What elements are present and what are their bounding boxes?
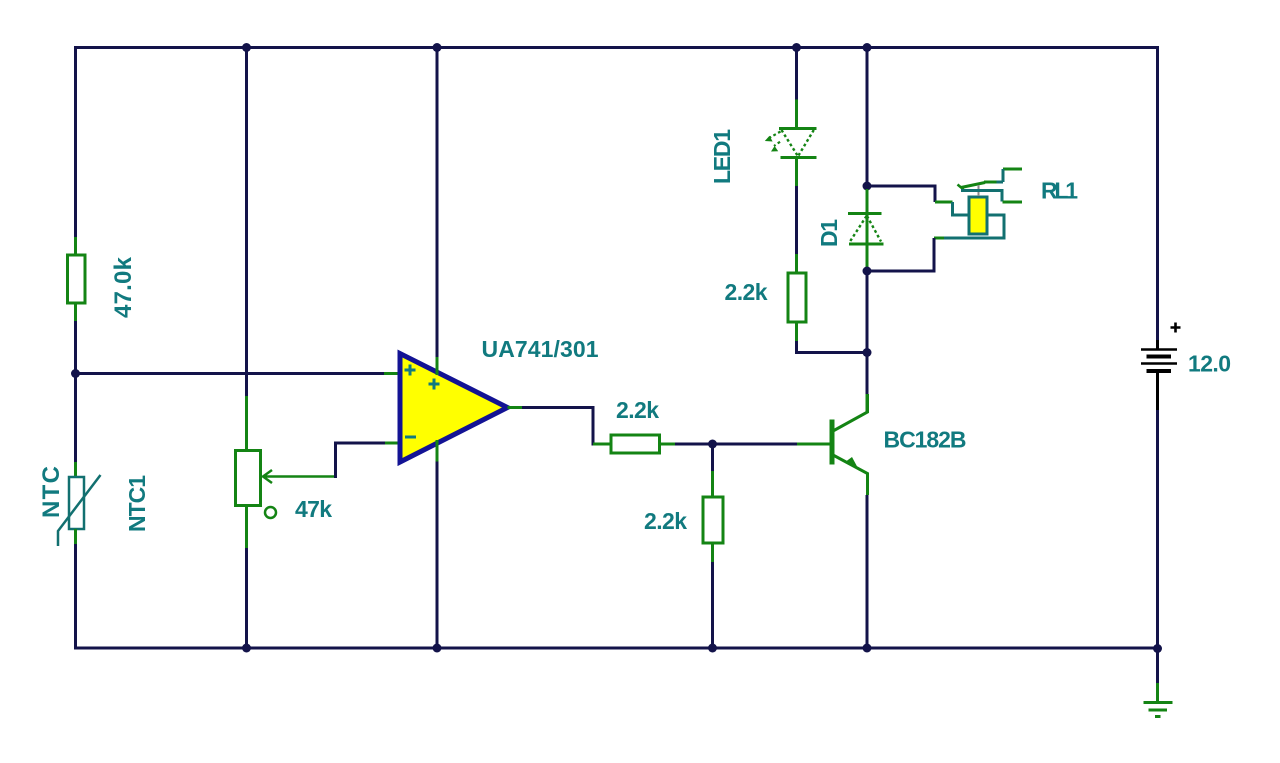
- potentiometer open circle: [265, 507, 276, 518]
- wire NTC top pin stub: [74, 462, 77, 477]
- wire R2 to node B: [675, 443, 713, 446]
- wire relay coil pin stub bottom: [934, 237, 944, 240]
- svg-text:UA741/301: UA741/301: [482, 336, 599, 362]
- wire pot column upper: [245, 46, 248, 396]
- wire top rail: [76, 46, 1158, 49]
- node junction collector LED: [863, 348, 872, 357]
- node junction bottom rail R3: [708, 644, 717, 653]
- transistor Q1 emitter diagonal: [833, 455, 868, 495]
- LED LED1 symbol top bar: [779, 127, 817, 130]
- wire D1 anode stub: [866, 244, 869, 271]
- LED LED1 triangle sides: [782, 130, 814, 156]
- thermistor NTC1 body: [69, 477, 84, 529]
- LED light arrow 1: [770, 132, 781, 138]
- diode D1 base bar: [849, 243, 884, 246]
- wire LED to R4: [795, 186, 798, 254]
- wire R1 top pin stub: [74, 237, 77, 255]
- relay switch common teal line: [961, 191, 1002, 202]
- wire node B down to R3: [711, 444, 714, 471]
- svg-text:2.2k: 2.2k: [644, 508, 687, 534]
- ground symbol: [1144, 703, 1173, 717]
- wire LED column top: [795, 46, 798, 100]
- wire D1 column to collector node: [866, 271, 869, 394]
- wire D1 cathode pin stub: [866, 189, 869, 245]
- svg-text:BC182B: BC182B: [884, 427, 967, 453]
- relay switch teal riser: [1002, 169, 1005, 182]
- node junction bottom rail op-amp column: [433, 644, 442, 653]
- svg-text:47k: 47k: [295, 496, 332, 522]
- wire op-amp supply column lower: [436, 462, 439, 650]
- transistor Q1 emitter arrowhead: [847, 457, 860, 471]
- wire relay coil lead teal top: [953, 202, 970, 215]
- wire LED anode pin stub: [795, 100, 798, 129]
- LED light arrow 2: [774, 142, 780, 146]
- battery V1 positive lead: [1156, 340, 1159, 349]
- wire LED cathode stub: [795, 158, 798, 187]
- node junction bottom rail right: [1153, 644, 1162, 653]
- node junction top rail op-amp column: [433, 43, 442, 52]
- wire right rail lower: [1156, 410, 1159, 683]
- wire right rail upper: [1156, 46, 1159, 340]
- wire left rail lower: [74, 544, 77, 650]
- wire emitter to bottom rail: [866, 495, 869, 650]
- node junction top rail D1 column: [863, 43, 872, 52]
- node junction top rail LED column: [792, 43, 801, 52]
- op-amp U1 triangle UA741/301: [400, 354, 508, 463]
- diode D1 triangle sides: [850, 216, 881, 242]
- wire wiper to inverting input: [334, 443, 385, 477]
- LED cathode bar: [781, 156, 817, 159]
- diode D1 cathode bar: [848, 212, 882, 215]
- relay switch terminal NO: [1003, 168, 1022, 171]
- wire pot bottom pin stub: [245, 506, 248, 549]
- wire NTC bottom pin stub: [74, 529, 77, 544]
- transistor Q1 base bar: [830, 420, 835, 465]
- svg-text:2.2k: 2.2k: [616, 397, 659, 423]
- svg-text:D1: D1: [816, 219, 842, 247]
- op-amp supply plus marker: [429, 379, 440, 390]
- svg-text:NTC: NTC: [38, 466, 65, 518]
- wire op-amp top pin stub: [436, 357, 439, 375]
- wire R4 bottom pin stub: [795, 322, 798, 341]
- wire node B to transistor base: [713, 443, 798, 446]
- relay actuator link: [978, 185, 980, 197]
- node junction left mid: [71, 369, 80, 378]
- wire left rail mid: [74, 321, 77, 462]
- wire R4 top pin stub: [795, 254, 798, 273]
- battery negative lead: [1156, 371, 1159, 410]
- svg-text:RL1: RL1: [1041, 178, 1078, 204]
- op-amp minus input marker: [405, 436, 416, 439]
- relay RL1 coil: [969, 197, 987, 234]
- wire op-amp output pin stub: [508, 406, 523, 409]
- wire base pin stub: [797, 443, 831, 446]
- wire R2 right pin stub: [660, 443, 676, 446]
- resistor R4 2.2k LED: [788, 273, 806, 322]
- relay switch lever: [961, 183, 985, 188]
- wire R3 to bottom rail: [711, 562, 714, 650]
- svg-text:LED1: LED1: [709, 129, 735, 184]
- wire relay coil pin stub top: [935, 201, 953, 204]
- wire R1 bottom pin stub: [74, 303, 77, 321]
- wire op-amp supply column upper: [436, 46, 439, 357]
- resistor 47.0k: [68, 255, 86, 303]
- potentiometer wiper arrow: [263, 470, 334, 483]
- resistor R2 2.2k horizontal: [611, 435, 660, 453]
- wire collector pin stub upper: [866, 394, 869, 412]
- wire relay coil lead teal bottom: [944, 215, 1004, 238]
- thermistor NTC1 diagonal: [58, 475, 101, 546]
- wire op-amp bottom pin stub: [436, 440, 439, 462]
- wire relay coil feed top: [867, 186, 935, 202]
- wire output to R2: [522, 408, 594, 445]
- battery plates: [1141, 348, 1177, 351]
- svg-text:12.0: 12.0: [1188, 351, 1231, 377]
- resistor R3 2.2k vertical: [703, 497, 723, 543]
- wire bottom rail: [76, 647, 1158, 650]
- svg-text:2.2k: 2.2k: [725, 279, 768, 305]
- node junction relay bottom tap: [863, 267, 872, 276]
- wire op-amp plus input pin stub: [384, 372, 401, 375]
- transistor Q1 collector diagonal: [833, 394, 868, 431]
- node junction top rail pot column: [242, 43, 251, 52]
- wire D1 column top: [866, 46, 869, 189]
- node junction bottom rail emitter: [863, 644, 872, 653]
- node junction relay top tap: [863, 182, 872, 191]
- wire R3 top pin stub: [711, 471, 714, 497]
- svg-text:47.0k: 47.0k: [110, 256, 137, 318]
- wire R3 bottom pin stub: [711, 543, 714, 562]
- potentiometer body: [236, 451, 261, 506]
- wire left rail upper: [74, 46, 77, 237]
- wire pot column lower: [245, 548, 248, 650]
- wire pot top pin stub: [245, 396, 248, 451]
- relay switch upper contact lead: [984, 181, 997, 184]
- node junction bottom rail pot column: [242, 644, 251, 653]
- wire R4 to collector node: [797, 341, 868, 353]
- wire noninverting input horizontal: [76, 372, 385, 375]
- wire relay coil return: [867, 238, 934, 271]
- ground pin stub: [1156, 683, 1159, 703]
- battery plus marker: [1171, 323, 1181, 333]
- op-amp plus input marker: [405, 365, 416, 376]
- wire op-amp minus input pin stub: [385, 442, 401, 445]
- wire R2 left pin stub: [593, 443, 611, 446]
- relay switch terminal NC: [1003, 201, 1023, 204]
- node junction base divider: [708, 440, 717, 449]
- svg-text:NTC1: NTC1: [124, 475, 150, 532]
